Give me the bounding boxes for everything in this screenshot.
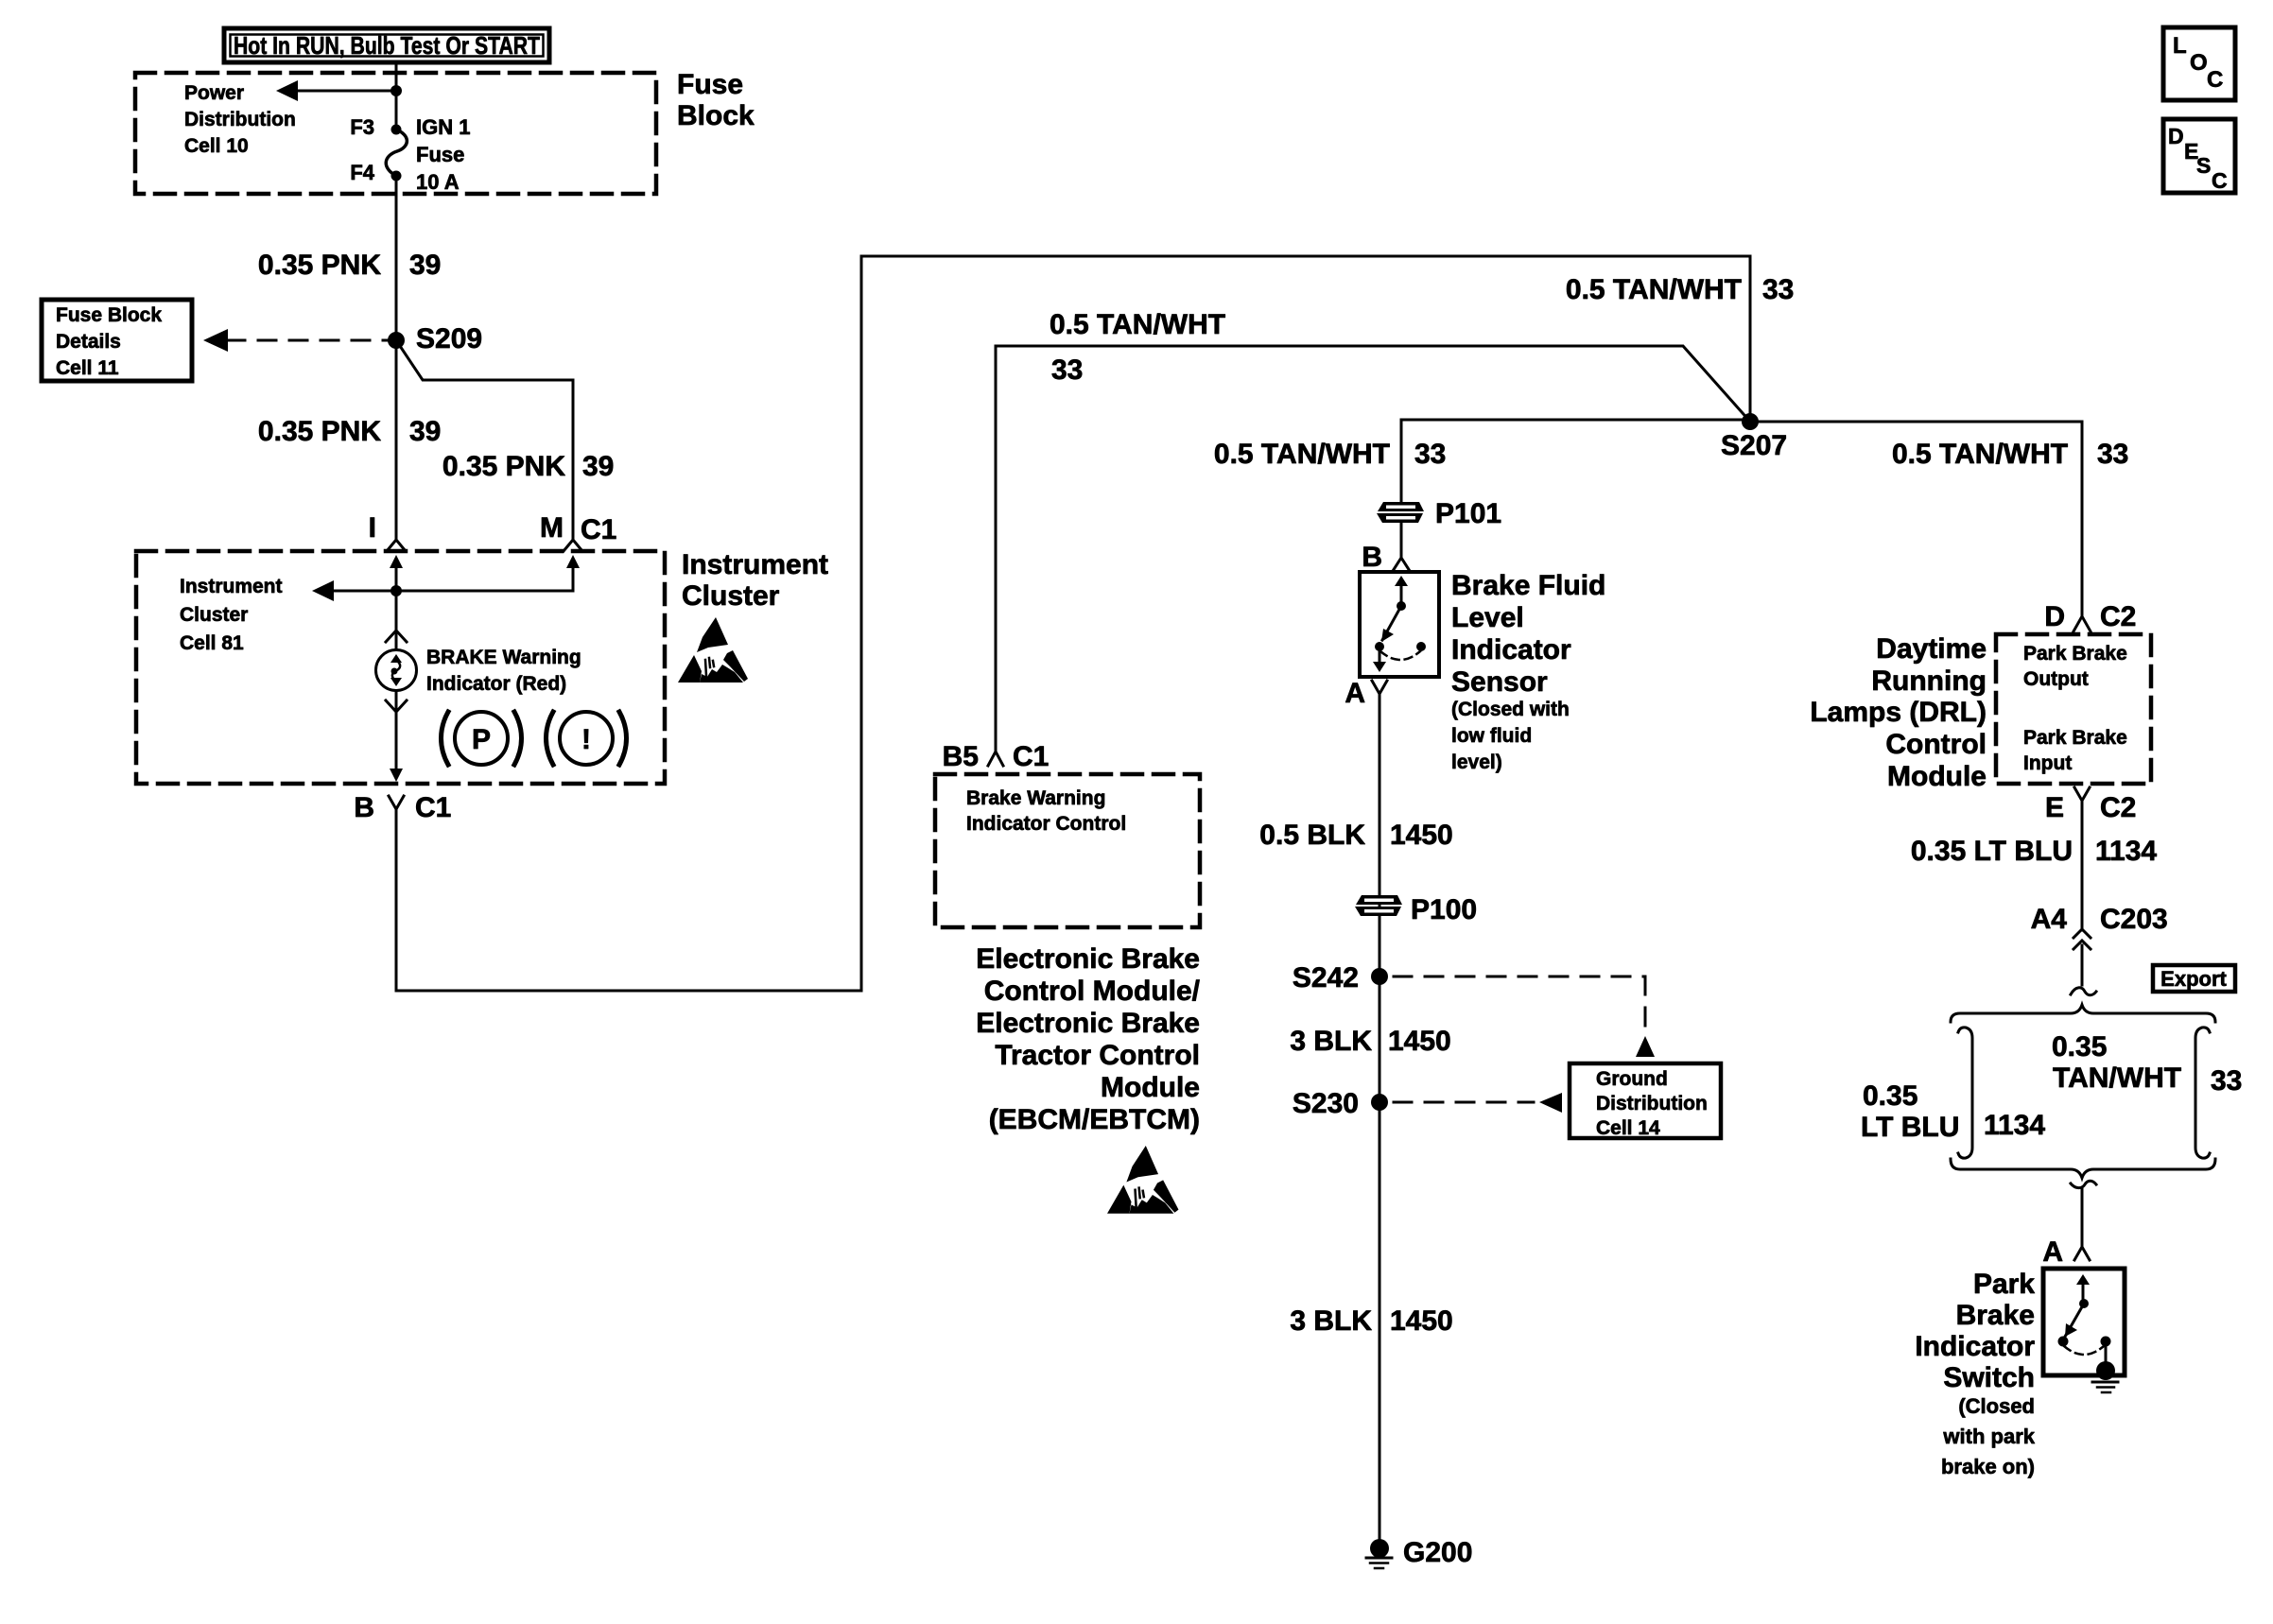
Instrument Cluster Cell 81 label — [180, 576, 283, 654]
svg-text:Park: Park — [1973, 1269, 2035, 1300]
entry arrows at I and M — [390, 555, 580, 649]
BRAKE warning indicator lamp — [376, 650, 417, 691]
svg-text:Cluster: Cluster — [180, 604, 248, 626]
svg-text:Fuse: Fuse — [416, 143, 464, 166]
connector pin B5 C1 — [943, 741, 1050, 772]
svg-text:C: C — [2207, 67, 2223, 93]
svg-text:0.35 PNK: 0.35 PNK — [258, 416, 381, 447]
junction + arrow to Instrument Cluster Cell 81 — [312, 580, 402, 601]
svg-text:with park: with park — [1942, 1425, 2035, 1448]
svg-text:1450: 1450 — [1388, 1026, 1451, 1057]
svg-text:39: 39 — [582, 451, 614, 482]
wire EBCM B5 up and over to S207 — [996, 346, 1750, 752]
svg-text:LT BLU: LT BLU — [1861, 1112, 1959, 1143]
svg-text:Park Brake: Park Brake — [2023, 643, 2127, 665]
connector pin E C2 — [2045, 787, 2136, 823]
svg-text:0.35: 0.35 — [2052, 1031, 2107, 1063]
svg-text:B: B — [1362, 542, 1382, 573]
svg-text:brake on): brake on) — [1941, 1455, 2035, 1478]
fuse block dashed box — [135, 73, 656, 194]
svg-text:Sensor: Sensor — [1451, 666, 1548, 698]
svg-text:3 BLK: 3 BLK — [1290, 1026, 1372, 1057]
svg-text:C2: C2 — [2100, 601, 2136, 632]
dashed reference S230 to ground distribution — [1394, 1093, 1562, 1113]
svg-text:Output: Output — [2023, 668, 2089, 690]
label 0.35 PNK 39 (branch) — [442, 451, 614, 482]
svg-text:10 A: 10 A — [416, 170, 460, 194]
branch wire S209 to M C1 — [396, 340, 573, 541]
(!) telltale symbol — [547, 712, 627, 765]
splice S230 — [1293, 1088, 1388, 1119]
svg-text:Running: Running — [1871, 665, 1987, 697]
fuse IGN 1 10A — [386, 125, 407, 181]
svg-text:Indicator Control: Indicator Control — [966, 813, 1126, 835]
svg-text:Level: Level — [1451, 602, 1524, 633]
label 0.5 TAN/WHT 33 (EBCM wire) — [1050, 309, 1225, 386]
label 0.35 PNK 39 (upper) — [258, 250, 441, 281]
svg-text:L: L — [2173, 33, 2187, 59]
wire S207 right to DRL module — [1750, 422, 2082, 616]
svg-text:1450: 1450 — [1390, 820, 1453, 851]
label 0.5 TAN/WHT 33 (sensor branch) — [1214, 439, 1446, 470]
svg-text:1134: 1134 — [2095, 836, 2157, 867]
svg-text:(EBCM/EBTCM): (EBCM/EBTCM) — [989, 1104, 1200, 1135]
dashed arrow S209 to Fuse Block Details — [203, 329, 390, 352]
brake fluid level sensor box — [1360, 572, 1439, 677]
svg-text:Distribution: Distribution — [1596, 1093, 1708, 1114]
svg-text:Block: Block — [677, 100, 755, 131]
label 0.5 TAN/WHT 33 (DRL wire) — [1892, 439, 2128, 470]
svg-text:S242: S242 — [1293, 962, 1359, 993]
svg-text:0.35 PNK: 0.35 PNK — [442, 451, 565, 482]
wire down to P101 — [1400, 420, 1403, 502]
svg-text:Instrument: Instrument — [682, 549, 828, 580]
park brake switch symbol — [2058, 1274, 2119, 1392]
svg-text:Cell 10: Cell 10 — [184, 135, 249, 157]
BRAKE Warning Indicator (Red) label — [426, 647, 581, 695]
dashed reference S242 to ground distribution — [1394, 976, 1655, 1057]
svg-text:C2: C2 — [2100, 792, 2136, 823]
svg-text:Cell 14: Cell 14 — [1596, 1117, 1660, 1139]
svg-text:33: 33 — [1051, 354, 1083, 386]
wire A down to G200 — [1379, 694, 1381, 1540]
wire S207 left to sensor branch — [1401, 419, 1750, 422]
label 0.5 BLK 1450 — [1259, 820, 1452, 851]
Fuse Block Details Cell 11 box — [42, 300, 192, 381]
sensor switch symbol — [1373, 576, 1426, 672]
svg-text:(Closed with: (Closed with — [1451, 699, 1570, 720]
svg-text:Switch: Switch — [1943, 1362, 2035, 1393]
svg-text:33: 33 — [1762, 274, 1794, 305]
wire P101 to sensor — [1400, 523, 1403, 558]
svg-text:C1: C1 — [581, 514, 616, 545]
label 0.35 PNK 39 (lower) — [258, 416, 441, 447]
chevron marker above indicator — [386, 631, 407, 642]
svg-text:A4: A4 — [2031, 904, 2068, 935]
svg-text:O: O — [2190, 50, 2208, 76]
Fuse Block label — [677, 69, 755, 131]
svg-text:S230: S230 — [1293, 1088, 1359, 1119]
connector pin B (sensor) — [1362, 542, 1410, 573]
svg-text:33: 33 — [1414, 439, 1446, 470]
upper brace (wire split) — [1951, 1005, 2215, 1022]
IGN 1 Fuse 10 A label — [416, 115, 470, 194]
Export box — [2153, 965, 2235, 992]
svg-text:Electronic Brake: Electronic Brake — [976, 943, 1200, 975]
svg-text:I: I — [369, 512, 376, 544]
svg-text:Cluster: Cluster — [682, 580, 780, 612]
svg-text:0.5 TAN/WHT: 0.5 TAN/WHT — [1892, 439, 2068, 470]
svg-text:Indicator: Indicator — [1451, 634, 1571, 665]
label 3 BLK 1450 (lower) — [1290, 1305, 1452, 1337]
svg-text:BRAKE Warning: BRAKE Warning — [426, 647, 581, 668]
EBCM dashed box — [935, 774, 1200, 927]
svg-text:C: C — [2212, 168, 2228, 193]
svg-text:C203: C203 — [2100, 904, 2168, 935]
ESD symbol (instrument cluster) — [678, 617, 748, 682]
svg-text:P: P — [472, 724, 491, 755]
svg-text:3 BLK: 3 BLK — [1290, 1305, 1372, 1337]
svg-text:Module: Module — [1101, 1072, 1200, 1103]
svg-text:level): level) — [1451, 752, 1502, 773]
DESC box — [2163, 119, 2235, 193]
svg-text:0.5 TAN/WHT: 0.5 TAN/WHT — [1214, 439, 1390, 470]
svg-text:Power: Power — [184, 82, 244, 104]
svg-text:Brake: Brake — [1956, 1300, 2035, 1331]
svg-text:Input: Input — [2023, 752, 2072, 774]
svg-text:Tractor Control: Tractor Control — [995, 1040, 1200, 1071]
svg-text:low fluid: low fluid — [1451, 725, 1532, 747]
svg-text:Park Brake: Park Brake — [2023, 727, 2127, 749]
svg-text:0.5 TAN/WHT: 0.5 TAN/WHT — [1050, 309, 1225, 340]
splice S207 — [1742, 413, 1759, 430]
Daytime Running Lamps (DRL) Control Module label — [1810, 633, 1987, 792]
svg-text:Hot In RUN, Bulb Test Or START: Hot In RUN, Bulb Test Or START — [234, 31, 540, 60]
svg-text:Control: Control — [1885, 729, 1987, 760]
connector pin M C1 — [540, 512, 616, 551]
svg-text:0.5 TAN/WHT: 0.5 TAN/WHT — [1566, 274, 1742, 305]
splice S209 — [388, 332, 405, 349]
svg-text:Brake Warning: Brake Warning — [966, 787, 1105, 809]
label 0.5 TAN/WHT 33 (top right) — [1566, 274, 1794, 305]
svg-text:Brake Fluid: Brake Fluid — [1451, 570, 1605, 601]
Park Brake Indicator Switch label — [1915, 1269, 2035, 1478]
svg-text:Control Module/: Control Module/ — [984, 976, 1201, 1007]
svg-text:Details: Details — [56, 331, 121, 353]
svg-text:Indicator (Red): Indicator (Red) — [426, 673, 566, 695]
left branch wire (0.35 LT BLU 1134) — [1861, 1028, 2045, 1158]
wire merge to park brake switch — [2071, 1181, 2096, 1246]
svg-text:C1: C1 — [415, 792, 451, 823]
right branch wire (0.35 TAN/WHT 33) — [2052, 1028, 2242, 1158]
svg-text:Lamps (DRL): Lamps (DRL) — [1810, 697, 1987, 728]
connector pin A (sensor) — [1345, 678, 1387, 709]
connector pin D C2 — [2044, 601, 2136, 632]
svg-text:F3: F3 — [350, 115, 374, 139]
pass-through grommet P100 — [1355, 894, 1477, 925]
ESD symbol (EBCM) — [1107, 1146, 1178, 1214]
svg-text:S209: S209 — [416, 323, 482, 354]
(P) telltale symbol — [442, 712, 522, 765]
connector pin A (park brake switch) — [2042, 1236, 2090, 1268]
svg-text:1450: 1450 — [1390, 1305, 1453, 1337]
svg-text:Export: Export — [2160, 967, 2227, 991]
svg-text:39: 39 — [409, 250, 441, 281]
svg-text:Electronic Brake: Electronic Brake — [976, 1008, 1200, 1039]
svg-text:B5: B5 — [943, 741, 979, 772]
svg-text:F4: F4 — [350, 161, 374, 184]
svg-text:Fuse Block: Fuse Block — [56, 304, 162, 326]
Brake Warning Indicator Control label — [966, 787, 1126, 835]
svg-text:!: ! — [581, 724, 591, 755]
Power Distribution Cell 10 label — [184, 82, 296, 157]
svg-text:Daytime: Daytime — [1876, 633, 1987, 665]
connector pin I — [369, 512, 406, 551]
wire from header box into fuse block — [395, 62, 398, 129]
svg-text:S207: S207 — [1721, 430, 1787, 461]
svg-text:P100: P100 — [1411, 894, 1477, 925]
wire B C1 down right and up to top run — [396, 256, 1750, 991]
arrow to Power Distribution — [276, 80, 402, 101]
svg-text:Indicator: Indicator — [1915, 1331, 2035, 1362]
svg-text:39: 39 — [409, 416, 441, 447]
DRL control module dashed box — [1996, 634, 2151, 784]
EBCM/EBTCM label — [976, 943, 1200, 1135]
wire fuse to instrument cluster (0.35 PNK 39) — [395, 176, 398, 540]
lower brace (wire merge) — [1951, 1159, 2215, 1178]
splice S242 — [1293, 962, 1388, 993]
Park Brake Input label — [2023, 727, 2127, 774]
Instrument Cluster label (right) — [682, 549, 828, 612]
Park Brake Output label — [2023, 643, 2127, 690]
svg-text:IGN 1: IGN 1 — [416, 115, 470, 139]
connector pin B C1 (cluster bottom) — [354, 792, 451, 823]
svg-text:P101: P101 — [1435, 498, 1501, 529]
wire below indicator with exit arrow — [390, 691, 403, 782]
svg-text:1134: 1134 — [1984, 1110, 2045, 1141]
svg-text:A: A — [1345, 678, 1365, 709]
svg-text:E: E — [2045, 792, 2064, 823]
svg-text:33: 33 — [2211, 1065, 2242, 1097]
label box "Hot In RUN, Bulb Test Or START" — [224, 28, 549, 62]
svg-text:Fuse: Fuse — [677, 69, 743, 100]
ground G200 — [1366, 1537, 1472, 1568]
svg-text:S: S — [2196, 153, 2211, 178]
svg-text:B: B — [354, 792, 374, 823]
svg-text:D: D — [2168, 124, 2184, 148]
in-line connector C203 (A4) — [2031, 904, 2168, 949]
svg-text:0.5 BLK: 0.5 BLK — [1259, 820, 1365, 851]
svg-text:C1: C1 — [1013, 741, 1049, 772]
instrument cluster dashed box — [136, 551, 665, 784]
wire C203 to split — [2071, 945, 2096, 995]
svg-text:G200: G200 — [1403, 1537, 1472, 1568]
svg-text:M: M — [540, 512, 564, 544]
svg-text:(Closed: (Closed — [1958, 1394, 2035, 1418]
svg-text:Cell 81: Cell 81 — [180, 632, 244, 654]
svg-text:0.35 PNK: 0.35 PNK — [258, 250, 381, 281]
Brake Fluid Level Indicator Sensor label — [1451, 570, 1605, 773]
label 3 BLK 1450 (upper) — [1290, 1026, 1450, 1057]
chevron marker below indicator — [386, 700, 407, 712]
svg-text:A: A — [2042, 1236, 2063, 1268]
wire E down to C203 — [2081, 801, 2084, 930]
svg-text:0.35: 0.35 — [1863, 1080, 1917, 1112]
svg-text:33: 33 — [2097, 439, 2128, 470]
Ground Distribution Cell 14 box — [1570, 1063, 1721, 1139]
label 0.35 LT BLU 1134 — [1911, 836, 2158, 867]
svg-text:Instrument: Instrument — [180, 576, 283, 597]
svg-text:D: D — [2044, 601, 2065, 632]
svg-text:0.35 LT BLU: 0.35 LT BLU — [1911, 836, 2073, 867]
pass-through grommet P101 — [1377, 498, 1501, 529]
svg-text:Distribution: Distribution — [184, 109, 296, 130]
LOC box — [2163, 27, 2235, 100]
svg-text:Module: Module — [1887, 761, 1987, 792]
park brake indicator switch box — [2043, 1269, 2125, 1375]
svg-text:TAN/WHT: TAN/WHT — [2053, 1063, 2181, 1094]
svg-text:Ground: Ground — [1596, 1068, 1668, 1090]
svg-text:Cell 11: Cell 11 — [56, 357, 119, 379]
